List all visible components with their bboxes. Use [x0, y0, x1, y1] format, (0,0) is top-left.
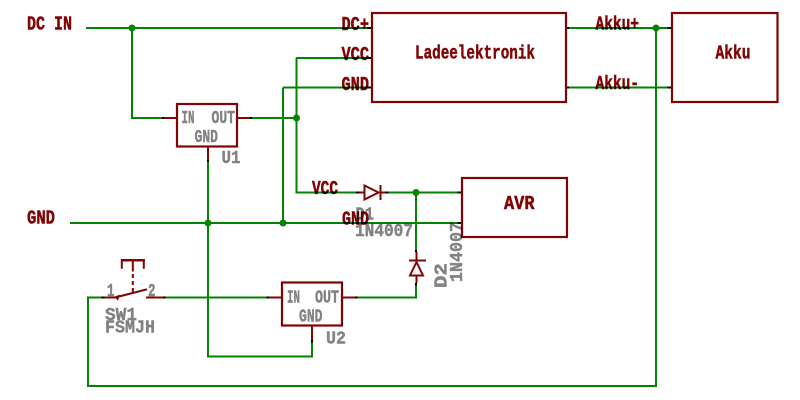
svg-text:DC+: DC+ — [342, 14, 370, 36]
svg-text:AVR: AVR — [504, 193, 535, 215]
svg-text:Ladeelektronik: Ladeelektronik — [415, 43, 535, 65]
svg-text:IN: IN — [287, 289, 300, 309]
svg-text:Akku: Akku — [716, 43, 751, 65]
svg-text:Akku-: Akku- — [596, 73, 640, 95]
svg-text:OUT: OUT — [212, 109, 236, 129]
svg-text:VCC: VCC — [342, 44, 370, 66]
svg-text:GND: GND — [342, 74, 370, 96]
svg-text:1: 1 — [107, 282, 115, 302]
svg-text:Akku+: Akku+ — [596, 14, 640, 36]
svg-text:1N4007: 1N4007 — [448, 222, 468, 282]
svg-text:VCC: VCC — [312, 178, 338, 200]
svg-text:GND: GND — [195, 128, 219, 148]
svg-text:1N4007: 1N4007 — [355, 222, 413, 242]
svg-text:OUT: OUT — [315, 289, 339, 309]
svg-text:GND: GND — [27, 208, 55, 230]
svg-text:2: 2 — [148, 282, 156, 302]
svg-text:IN: IN — [182, 109, 195, 129]
svg-text:U2: U2 — [326, 330, 346, 350]
svg-text:U1: U1 — [222, 149, 241, 169]
svg-text:DC IN: DC IN — [27, 14, 72, 36]
svg-text:FSMJH: FSMJH — [105, 319, 155, 339]
svg-text:GND: GND — [299, 308, 323, 328]
